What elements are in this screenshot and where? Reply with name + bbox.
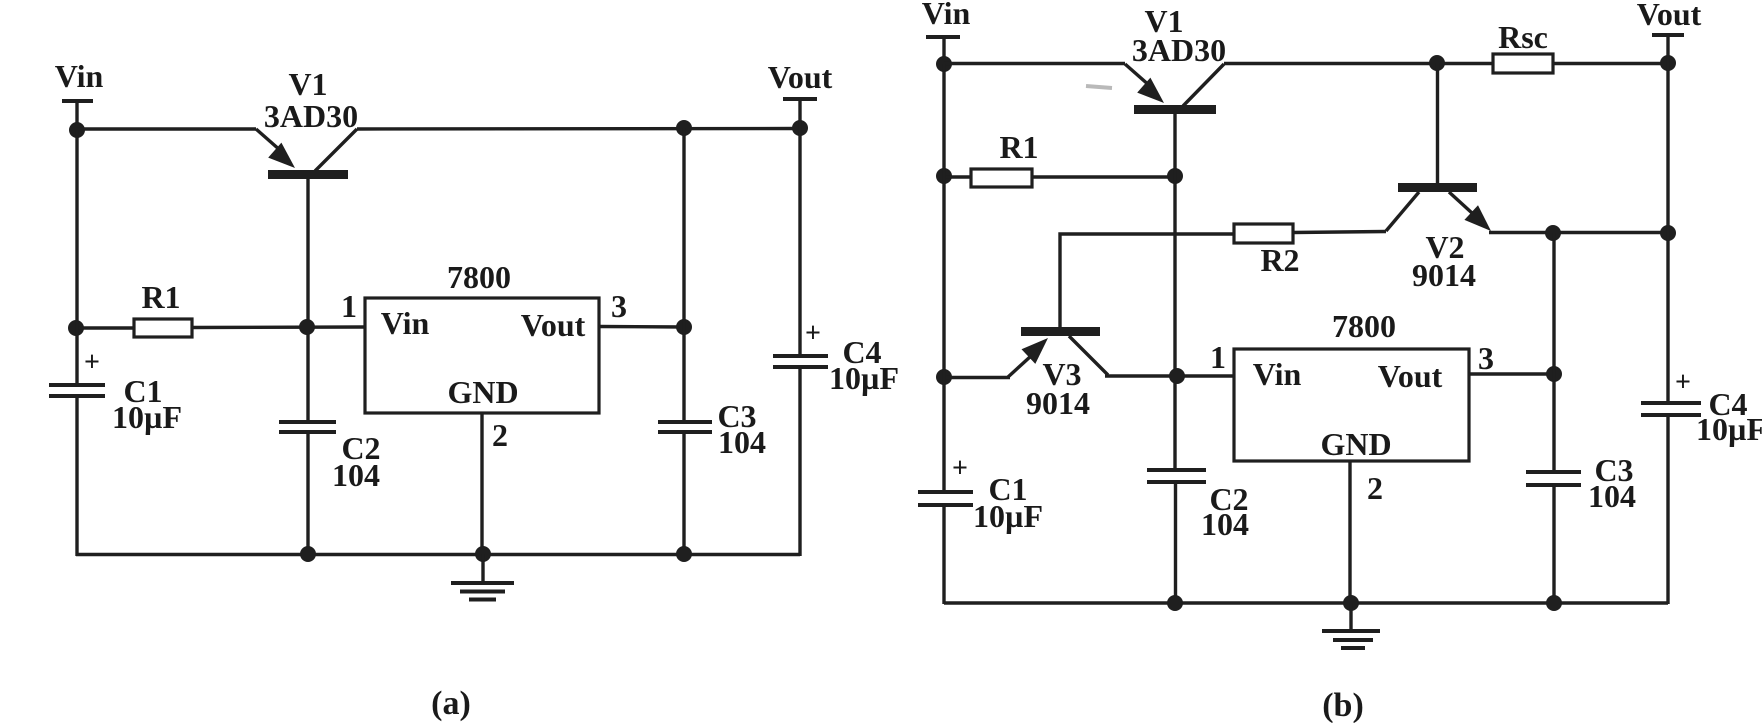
transistor V1 (b) emitter wire with arrow (1125, 64, 1164, 103)
terminal Vout (b) symbol (1652, 35, 1684, 63)
wire pin2 vertical (b) (1348, 461, 1351, 603)
svg-text:+: + (805, 318, 821, 349)
resistor Rsc body (1493, 54, 1553, 73)
wire pin3 to node (b) (1469, 372, 1554, 375)
svg-text:2: 2 (1367, 470, 1383, 506)
svg-text:Vin: Vin (922, 0, 971, 31)
transistor V1 (b) collector wire (1183, 64, 1224, 106)
resistor R1 (b) body (971, 169, 1032, 187)
svg-text:3AD30: 3AD30 (264, 98, 358, 134)
node emitter C3 branch (b) (1545, 225, 1561, 241)
regulator U 7800 (b) body (1234, 349, 1469, 461)
node top Vout (a) (792, 120, 808, 136)
node left rail R1 (a) (68, 320, 84, 336)
svg-text:Vin: Vin (1253, 356, 1302, 392)
svg-text:Vout: Vout (768, 59, 833, 95)
wire V3 collector to pin1 (b) (1105, 374, 1234, 377)
transistor V1 (b) base bar (1134, 105, 1216, 114)
regulator U 7800 (a) body (365, 298, 599, 413)
svg-text:+: + (952, 453, 968, 484)
svg-text:1: 1 (341, 288, 357, 324)
wire V1 base vertical (a) (306, 179, 309, 421)
node emitter Vout rail (b) (1660, 225, 1676, 241)
wire C3 to bottom rail (a) (682, 432, 685, 554)
node C2 bottom (b) (1167, 595, 1183, 611)
svg-text:10µF: 10µF (1696, 411, 1762, 447)
wire top middle (b) (1224, 62, 1493, 65)
capacitor C3 (b) plates (1526, 472, 1581, 485)
wire Rsc to Vout (b) (1553, 62, 1668, 65)
left rail lower (a) (75, 396, 78, 556)
terminal Vin (b) symbol (926, 37, 960, 64)
bottom rail (b) (944, 601, 1668, 604)
transistor V2 base diagonal wire (1386, 192, 1419, 231)
wire V2 emitter to Vout rail (1489, 231, 1668, 234)
svg-text:104: 104 (332, 457, 380, 493)
svg-text:9014: 9014 (1412, 257, 1476, 293)
svg-text:3: 3 (611, 288, 627, 324)
svg-text:R2: R2 (1260, 242, 1299, 278)
node top C3 branch (a) (676, 120, 692, 136)
wire C3 branch upper (b) (1552, 233, 1555, 473)
wire top left (b) (944, 62, 1125, 65)
transistor V1 (a) base bar (268, 170, 348, 179)
node Vin rail junction (a) (69, 122, 85, 138)
wire C3 to bottom rail (b) (1552, 485, 1555, 603)
node ground (a) (475, 546, 491, 562)
svg-text:Vin: Vin (381, 305, 430, 341)
svg-text:R1: R1 (141, 279, 180, 315)
capacitor C2 (b) plates (1147, 470, 1206, 482)
svg-text:7800: 7800 (447, 259, 511, 295)
svg-text:+: + (84, 347, 100, 378)
wire R1 right to pin1 (a) (192, 325, 365, 329)
wire C2 to bottom rail (b) (1174, 482, 1177, 603)
node V1 base R1 (a) (299, 319, 315, 335)
svg-text:1: 1 (1210, 339, 1226, 375)
transistor V3 collector wire (1069, 336, 1108, 375)
resistor R1 (a) body (134, 319, 192, 337)
wire C3 branch upper (a) (682, 128, 685, 422)
left rail upper (a) (75, 130, 78, 385)
svg-text:2: 2 (492, 417, 508, 453)
transistor V2 emitter wire with arrow (1449, 192, 1491, 231)
transistor V2 collector wire (1436, 63, 1439, 184)
wire R1 right (b) (1032, 175, 1175, 178)
wire C2 to bottom rail (a) (306, 432, 309, 555)
svg-text:Vout: Vout (1378, 358, 1443, 394)
capacitor C1 (b) plates (918, 492, 973, 505)
node top Vout (b) (1660, 55, 1676, 71)
svg-text:9014: 9014 (1026, 385, 1090, 421)
svg-text:(a): (a) (431, 685, 471, 722)
capacitor C1 (a) plates (49, 385, 105, 396)
transistor V3 emitter wire with arrow (1008, 338, 1048, 377)
svg-text:Vin: Vin (55, 58, 104, 94)
node pin1 (b) (1169, 368, 1185, 384)
node V2 collector branch (b) (1429, 55, 1445, 71)
svg-text:10µF: 10µF (112, 399, 182, 435)
node left rail V3 emitter (b) (936, 369, 952, 385)
node C3 bottom (b) (1546, 595, 1562, 611)
wire pin2 vertical (a) (480, 413, 483, 554)
node C2 bottom (a) (300, 546, 316, 562)
wire V3 emitter to left rail (944, 376, 1010, 379)
right rail upper (b) (1666, 63, 1669, 403)
node V1 base R1 (b) (1167, 168, 1183, 184)
node pin3 (a) (676, 319, 692, 335)
bottom rail (a) (76, 553, 800, 556)
left rail lower (b) (942, 505, 945, 604)
transistor V2 base bar (1398, 183, 1477, 192)
capacitor C4 (a) branch upper wire (798, 128, 801, 356)
wire top left (a) (77, 127, 256, 130)
svg-text:GND: GND (1320, 426, 1391, 462)
transistor V1 (a) collector wire (315, 129, 357, 171)
wire R2 right to V2 base (1293, 232, 1386, 233)
svg-text:Rsc: Rsc (1498, 19, 1548, 55)
terminal Vin (a) symbol (62, 101, 93, 130)
node Vin rail junction (b) (936, 56, 952, 72)
capacitor C2 (a) plates (279, 422, 336, 432)
capacitor C3 (a) plates (658, 422, 712, 432)
transistor V1 (a) emitter wire with arrow (256, 129, 295, 168)
node C3 bottom (a) (676, 546, 692, 562)
wire pin3 to node (a) (599, 325, 684, 329)
node ground (b) (1343, 595, 1359, 611)
svg-text:7800: 7800 (1332, 308, 1396, 344)
left rail upper (b) (942, 64, 945, 492)
svg-text:104: 104 (1201, 506, 1249, 542)
svg-text:R1: R1 (999, 129, 1038, 165)
svg-text:3AD30: 3AD30 (1132, 32, 1226, 68)
svg-text:104: 104 (1588, 478, 1636, 514)
transistor V3 base bar (1021, 327, 1100, 336)
wire top right (a) (357, 127, 800, 131)
wire R1 left (a) (76, 326, 134, 329)
node left rail R1 (b) (936, 168, 952, 184)
wire V3 collector riser and top wire to R2 (1060, 234, 1234, 327)
wire R1 left (b) (944, 175, 971, 178)
terminal Vout (a) symbol (783, 99, 817, 128)
svg-text:+: + (1675, 367, 1691, 398)
ground symbol (b) (1322, 603, 1380, 648)
resistor R2 body (1234, 224, 1293, 243)
capacitor C4 (a) plates (773, 356, 828, 367)
svg-text:104: 104 (718, 424, 766, 460)
svg-text:(b): (b) (1322, 687, 1364, 723)
svg-text:10µF: 10µF (829, 360, 899, 396)
right rail lower (b) (1666, 415, 1669, 604)
svg-text:10µF: 10µF (973, 498, 1043, 534)
svg-text:Vout: Vout (1637, 0, 1702, 32)
svg-text:3: 3 (1478, 340, 1494, 376)
wire C4 to bottom rail (a) (798, 367, 801, 556)
capacitor C4 (b) plates (1641, 403, 1701, 415)
scan smudge artifact (1086, 86, 1112, 88)
svg-text:Vout: Vout (521, 307, 586, 343)
svg-text:GND: GND (447, 374, 518, 410)
wire V1 base vertical (b) (1173, 114, 1176, 470)
ground symbol (a) (451, 554, 514, 600)
svg-text:V1: V1 (288, 66, 327, 102)
node pin3 (b) (1546, 366, 1562, 382)
